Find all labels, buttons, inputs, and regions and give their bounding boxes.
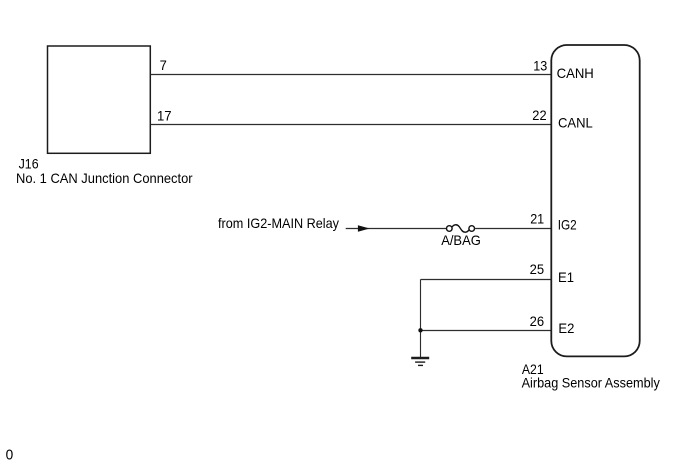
svg-text:CANL: CANL [558,114,593,130]
svg-text:17: 17 [157,107,172,123]
arrow on IG2 wire [358,225,370,232]
connector J16 box [48,46,151,153]
wire CANH (pin 7 to pin 13) [151,74,552,76]
ground symbol bottom bar [418,364,423,366]
svg-text:from IG2-MAIN Relay: from IG2-MAIN Relay [218,215,339,231]
svg-text:26: 26 [530,313,545,329]
svg-text:A/BAG: A/BAG [441,232,481,248]
svg-text:13: 13 [533,57,547,73]
fuse A/BAG right terminal circle [469,226,475,232]
wire CANL (pin 17 to pin 22) [151,124,552,126]
fuse A/BAG left terminal circle [447,226,453,232]
svg-text:21: 21 [530,210,544,226]
svg-text:22: 22 [532,107,546,123]
ground symbol top bar [411,357,429,359]
wire IG2 right segment (fuse to pin 21) [474,228,551,230]
wire IG2 left segment (relay to fuse) [346,228,447,230]
svg-text:CANH: CANH [557,65,594,81]
svg-text:Airbag Sensor Assembly: Airbag Sensor Assembly [522,374,660,390]
svg-text:IG2: IG2 [558,217,577,233]
wire E2 (horizontal to pin 26) [421,330,552,332]
junction dot E2/ground [418,328,422,332]
ground symbol middle bar [415,361,425,363]
wire ground vertical segment [420,280,422,358]
wire E1 (horizontal to pin 25) [421,279,552,281]
fuse A/BAG wave element [452,225,469,232]
svg-text:0: 0 [6,446,14,463]
svg-text:7: 7 [160,57,167,73]
svg-text:E1: E1 [558,269,574,285]
svg-text:E2: E2 [558,320,574,336]
ECU block A21 Airbag Sensor Assembly [551,45,639,356]
svg-text:25: 25 [530,261,545,277]
svg-text:No. 1 CAN Junction Connector: No. 1 CAN Junction Connector [16,170,193,186]
